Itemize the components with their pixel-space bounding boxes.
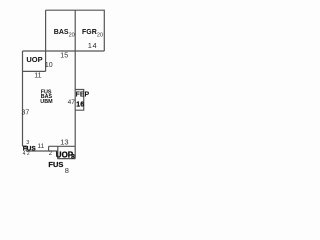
wire: long horizontal wall y=51 xyxy=(23,50,105,52)
svg-text:BAS: BAS xyxy=(54,29,69,36)
svg-text:8: 8 xyxy=(71,154,75,161)
svg-text:UBM: UBM xyxy=(40,99,53,105)
svg-text:8: 8 xyxy=(65,166,69,175)
svg-text:FGR: FGR xyxy=(82,29,97,36)
wire: 2-ft drop at x=48.6 xyxy=(48,146,50,151)
svg-text:20: 20 xyxy=(69,32,75,38)
svg-text:11: 11 xyxy=(34,72,41,79)
svg-text:16: 16 xyxy=(76,101,84,108)
wire: bottom-left step tick xyxy=(23,146,27,151)
svg-text:10: 10 xyxy=(45,62,53,69)
svg-text:11: 11 xyxy=(38,143,45,150)
svg-text:20: 20 xyxy=(97,32,103,38)
svg-text:14: 14 xyxy=(88,41,97,50)
svg-text:FEP: FEP xyxy=(76,91,90,98)
wire: main vertical wall x=75.2 (BAS/FGR divider down to bottom porch) xyxy=(74,10,76,158)
wall: top box outline (BAS/FGR top and right) xyxy=(46,10,105,51)
wall: bottom UOP porch box xyxy=(58,146,76,158)
svg-text:FUS: FUS xyxy=(48,160,63,169)
wire: left edge of top box / UOP right edge xyxy=(45,10,47,71)
svg-text:UOP: UOP xyxy=(26,55,42,64)
wire: left outer wall x=22.5 xyxy=(22,51,24,146)
svg-text:13: 13 xyxy=(60,138,68,147)
wire: bottom step line (13) xyxy=(49,145,76,147)
wire: UOP porch bottom edge xyxy=(23,70,46,72)
svg-text:37: 37 xyxy=(22,110,30,117)
wall: FEP porch box xyxy=(75,90,84,111)
svg-text:47: 47 xyxy=(68,99,76,106)
svg-text:15: 15 xyxy=(60,53,68,60)
svg-text:2: 2 xyxy=(27,151,30,157)
wire: bottom long wall y=151 xyxy=(26,150,58,152)
svg-text:4: 4 xyxy=(23,151,26,157)
